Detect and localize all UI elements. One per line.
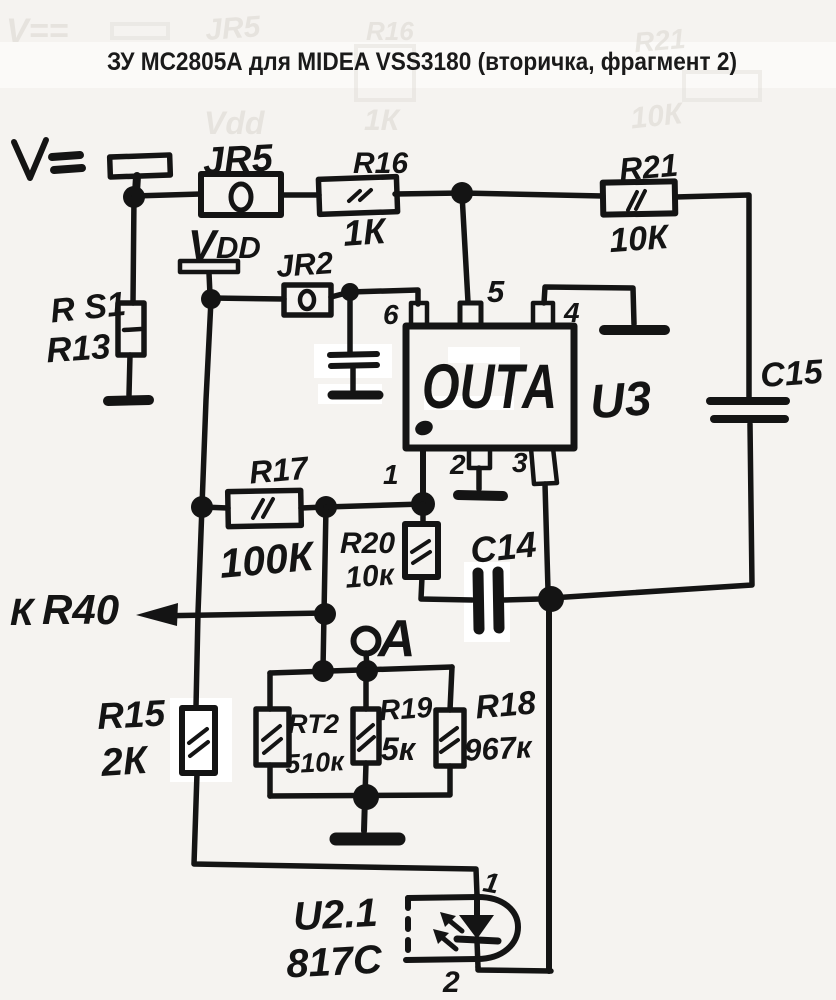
arrowhead R40 [136, 603, 178, 626]
svg-text:2: 2 [449, 449, 466, 480]
op-amp U3 body [406, 326, 574, 448]
svg-text:С14: С14 [468, 523, 538, 571]
wire CB to ground [350, 368, 356, 390]
white-out patch behind C14 [464, 562, 510, 642]
wire C14 node down to opto [546, 599, 552, 971]
capacitor C15 plates [710, 397, 786, 405]
wire R17 left [202, 507, 228, 508]
svg-text:6: 6 [383, 299, 399, 330]
svg-text:R16: R16 [366, 16, 414, 46]
title white band [0, 42, 836, 88]
wire R17 node to pin1 node [326, 504, 423, 507]
arrow light 1 [445, 917, 462, 931]
wire A to rail [366, 653, 367, 668]
label V= input [14, 140, 82, 178]
svg-text:5к: 5к [381, 731, 417, 767]
node V junction [123, 186, 145, 208]
svg-text:ЈR5: ЈR5 [204, 10, 263, 47]
wire R15 down to opto [194, 773, 477, 895]
white-out patch behind R15 [170, 698, 232, 782]
wire C14 to node [504, 599, 540, 600]
capacitor CB plates [330, 354, 377, 355]
optocoupler U2.1 body outline [406, 897, 518, 960]
hatch in R20 [412, 541, 430, 563]
white-out patch behind decoupling cap [314, 344, 392, 378]
LED D2 triangle [459, 915, 494, 939]
svg-text:10К: 10К [608, 218, 671, 260]
jumper JR2 body [284, 285, 331, 315]
wire R40 node to rail [323, 614, 324, 669]
label K R40 [10, 586, 119, 634]
wire R17 right to node [301, 507, 325, 508]
svg-text:1: 1 [383, 459, 399, 490]
wire Vdd bar to node [209, 273, 210, 295]
svg-text:R20: R20 [340, 527, 395, 560]
wire JR2 node to cap CB [347, 292, 353, 352]
LED D2 cathode bar [457, 939, 498, 941]
svg-text:R40: R40 [42, 586, 119, 633]
hatch in R18 [441, 728, 458, 752]
wire Vdd node to JR2 [211, 298, 284, 299]
node R17 right junction [315, 496, 337, 518]
svg-text:100К: 100К [218, 533, 318, 587]
hatch in R17 [253, 499, 273, 518]
node R17 left junction [191, 496, 213, 518]
Vdd terminal bar [180, 261, 238, 272]
node JR2 output junction [341, 283, 359, 301]
wire opto pin2 to right wire [478, 967, 551, 971]
svg-text:1К: 1К [342, 210, 390, 254]
wire node to ground [364, 797, 365, 831]
svg-text:10к: 10к [344, 558, 397, 594]
pin 3 stub [531, 448, 557, 484]
RS1 middle stripe [124, 329, 141, 330]
svg-text:2К: 2К [99, 739, 152, 785]
optocoupler dashed left edge [405, 898, 411, 960]
wire rail to RT2 [267, 673, 273, 709]
wire R18 to bottom rail [447, 766, 453, 794]
ground network [336, 833, 399, 846]
hatch in RT2 [263, 726, 281, 753]
svg-text:U3: U3 [588, 372, 653, 429]
wire fuse to node [136, 176, 137, 193]
svg-text:R21: R21 [618, 147, 680, 188]
wire RS1 to ground [129, 355, 130, 395]
jumper JR5 body [201, 174, 281, 215]
svg-text:R13: R13 [45, 327, 112, 370]
svg-text:R S1: R S1 [48, 285, 127, 331]
pin 4 stub [533, 303, 553, 326]
fuse F1 body [110, 155, 171, 177]
wire R40 arrow line [152, 613, 325, 616]
pin 2 stub [469, 448, 490, 468]
resistor RS1/R13 body [118, 303, 144, 355]
wire V node down to RS1 [133, 197, 134, 303]
wire R19 to bottom rail [365, 763, 366, 796]
wire R21 to C15 branch [675, 195, 749, 397]
white-out patch inside U3 [448, 347, 520, 363]
svg-text:R18: R18 [474, 683, 538, 725]
wire network bottom rail [270, 795, 450, 796]
svg-text:10К: 10К [629, 97, 687, 136]
node A terminal circle [354, 629, 379, 654]
wire rail to R18 [450, 667, 452, 710]
resistor R20 body [405, 524, 438, 577]
wire R20 to C14 [421, 577, 472, 600]
hatch in R21 [628, 191, 645, 210]
label o in JR2 [300, 291, 314, 309]
wire JR5 to R16 [281, 192, 319, 198]
svg-text:ЈR2: ЈR2 [275, 245, 334, 284]
hatch in R15 [189, 729, 208, 756]
wire RT2 to bottom rail [267, 765, 273, 796]
svg-text:А: А [376, 610, 416, 668]
svg-text:R17: R17 [248, 449, 312, 490]
svg-text:RТ2: RТ2 [288, 709, 339, 739]
wire top rail V to JR5 [134, 194, 201, 196]
svg-text:5: 5 [487, 274, 505, 309]
wire pin2 to ground [476, 468, 482, 489]
pin1 marker dot [413, 418, 435, 437]
node R40 junction [314, 603, 336, 625]
svg-text:U2.1: U2.1 [292, 891, 379, 939]
ground pin4 [604, 325, 665, 335]
wire pin1 node to R20 [420, 504, 426, 524]
resistor R18 body [436, 710, 464, 766]
node bottom rail junction [353, 784, 379, 810]
svg-text:R16: R16 [353, 147, 408, 180]
svg-text:С15: С15 [759, 353, 825, 395]
svg-text:1К: 1К [364, 104, 402, 137]
svg-text:Vdd: Vdd [204, 105, 266, 141]
svg-text:817С: 817С [285, 938, 384, 987]
svg-text:3: 3 [512, 447, 528, 478]
node rail left junction [312, 660, 334, 682]
resistor R21 body [603, 181, 676, 214]
svg-text:К: К [10, 592, 36, 634]
svg-text:967к: 967к [463, 729, 533, 768]
wire pin3 down to C14 node [545, 484, 548, 590]
resistor R16 body [318, 177, 397, 215]
svg-text:V==: V== [6, 12, 69, 50]
wire Vdd node long vertical [196, 300, 211, 707]
wire R16 to R21 [395, 193, 603, 196]
svg-text:2: 2 [442, 966, 460, 999]
LED D2 cathode lead [477, 941, 478, 967]
hatch in R19 [358, 725, 374, 750]
label VDD [188, 221, 261, 268]
resistor R19 body [353, 709, 379, 763]
LED D2 anode lead [474, 895, 480, 916]
ground pin2 [458, 495, 503, 496]
svg-text:510к: 510к [284, 746, 346, 779]
pin 6 stub [411, 303, 427, 326]
wire R17 node down to R40 node [324, 507, 326, 614]
wire pin4 to ground [544, 287, 634, 324]
arrow light 2 [438, 934, 456, 949]
thermistor RT2 body [256, 709, 289, 765]
wire C15 to C14 node [551, 424, 752, 598]
svg-text:ОUТА: ОUТА [422, 352, 557, 422]
wire rail to pin5 [462, 194, 468, 302]
svg-text:R15: R15 [96, 692, 167, 737]
node Vdd junction [201, 289, 221, 309]
resistor R15 body [182, 708, 215, 773]
hatch in R16 [349, 190, 371, 201]
wire pin1 down [420, 448, 426, 500]
wire network top rail [270, 667, 452, 673]
ground RS1 [108, 400, 149, 401]
svg-text:ЗУ МС2805А для MIDEA VSS3180: ЗУ МС2805А для MIDEA VSS3180 (вторичка, … [107, 48, 737, 76]
wire rail to R19 [363, 670, 369, 709]
label 0 in JR5 [231, 184, 251, 210]
node pin1 junction [411, 492, 435, 516]
node rail A junction [356, 660, 378, 682]
node C14 junction [538, 586, 564, 612]
resistor R17 body [228, 490, 302, 526]
pin 5 stub [460, 303, 481, 326]
svg-text:R19: R19 [378, 692, 433, 728]
capacitor C14 plates [478, 573, 479, 629]
ground CB [332, 391, 379, 400]
node pin5 rail junction [451, 182, 473, 204]
wire JR2 to pin6 [331, 290, 418, 304]
svg-text:ЈR5: ЈR5 [202, 137, 275, 183]
